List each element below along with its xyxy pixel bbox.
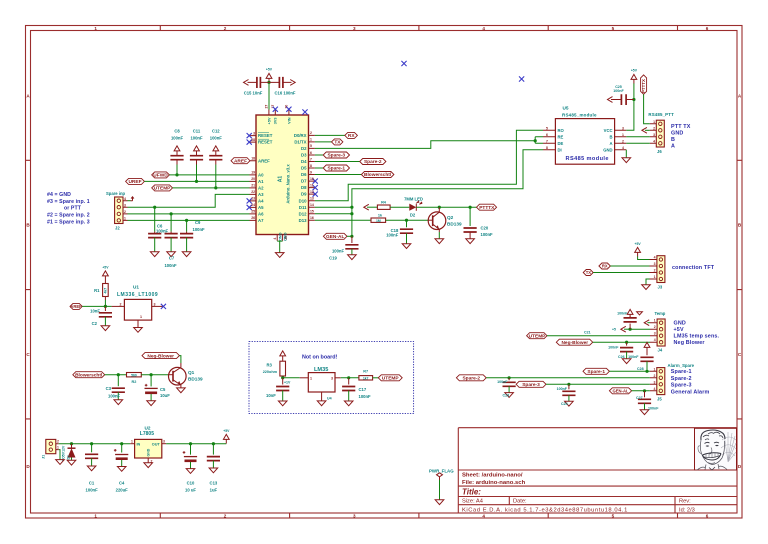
wire xyxy=(568,395,570,401)
svg-text:RS485_module: RS485_module xyxy=(562,113,597,118)
wire xyxy=(593,341,650,343)
svg-text:4: 4 xyxy=(654,338,656,342)
svg-text:GEN-AL: GEN-AL xyxy=(612,389,628,394)
wire xyxy=(186,238,188,252)
wire UTEMP to A2 xyxy=(173,187,250,189)
label Spare-3 xyxy=(323,152,349,158)
svg-text:3: 3 xyxy=(654,332,656,336)
pin xyxy=(248,81,270,83)
wire xyxy=(638,256,650,259)
svg-text:100nF: 100nF xyxy=(210,136,223,141)
power +5V xyxy=(644,342,650,351)
svg-text:2: 2 xyxy=(310,131,312,135)
no-connect 3V3 xyxy=(273,107,278,112)
svg-text:Spare-2: Spare-2 xyxy=(671,376,692,382)
svg-text:7: 7 xyxy=(546,139,548,143)
svg-text:A6: A6 xyxy=(258,212,264,217)
svg-text:+5V: +5V xyxy=(635,242,642,246)
svg-text:AREF: AREF xyxy=(70,304,82,309)
svg-text:2: 2 xyxy=(654,374,656,378)
svg-text:27: 27 xyxy=(265,105,269,109)
no-connect marks xyxy=(401,61,406,66)
connector J5 body xyxy=(657,368,665,395)
svg-text:+5V: +5V xyxy=(674,327,684,333)
ground xyxy=(114,400,123,405)
svg-text:3: 3 xyxy=(353,514,356,519)
svg-text:TX: TX xyxy=(334,140,341,146)
wire A to pin4 xyxy=(626,142,650,144)
svg-text:File: arduino-nano.sch: File: arduino-nano.sch xyxy=(462,480,526,486)
junction xyxy=(534,139,537,142)
svg-text:Spare-3: Spare-3 xyxy=(671,383,692,389)
ground xyxy=(56,460,65,465)
logo face sketch in title block xyxy=(695,428,737,470)
wire xyxy=(624,328,630,330)
ground xyxy=(348,255,357,260)
ground xyxy=(622,359,631,364)
bottom GND pins xyxy=(277,235,282,241)
pin xyxy=(469,232,471,239)
svg-text:18: 18 xyxy=(251,157,255,161)
junction xyxy=(120,442,123,445)
wire xyxy=(390,206,409,208)
power +5V above R3 xyxy=(280,351,286,360)
svg-text:Not on board!: Not on board! xyxy=(302,354,338,360)
svg-text:GND: GND xyxy=(671,131,683,137)
frame zone ticks top/bottom xyxy=(160,26,677,31)
svg-text:1: 1 xyxy=(94,26,97,31)
svg-text:UFWD: UFWD xyxy=(153,173,168,179)
svg-text:1: 1 xyxy=(653,120,655,124)
svg-text:U5: U5 xyxy=(563,106,569,111)
ground xyxy=(150,252,159,257)
svg-text:12: 12 xyxy=(310,190,314,194)
wire xyxy=(373,377,379,379)
wire xyxy=(486,377,650,379)
svg-text:10nF: 10nF xyxy=(266,393,276,398)
wire J2 pin1 to A7 xyxy=(128,219,250,221)
wire xyxy=(439,480,441,500)
ground xyxy=(317,401,326,406)
wire PTTTX to J6 pin1 xyxy=(644,94,650,124)
ground xyxy=(435,239,444,244)
svg-text:connection TFT: connection TFT xyxy=(672,265,715,271)
svg-text:19: 19 xyxy=(251,171,255,175)
svg-text:Neg-Blower: Neg-Blower xyxy=(147,353,174,359)
wire gnd bridge under mcu xyxy=(277,241,282,253)
svg-text:4: 4 xyxy=(654,256,656,260)
pin xyxy=(269,81,292,83)
svg-text:2: 2 xyxy=(224,26,227,31)
svg-text:C17: C17 xyxy=(359,387,367,392)
wire J2 pin3 to A3 riser xyxy=(128,194,250,207)
nose xyxy=(710,448,712,455)
wire open end xyxy=(290,80,295,86)
ground xyxy=(67,460,76,465)
svg-text:VIN: VIN xyxy=(287,117,291,124)
wire +5V down to VCC xyxy=(626,83,634,130)
wire xyxy=(386,219,428,221)
pin4 wire to Neg-Blower xyxy=(556,339,592,345)
pin +5V top xyxy=(268,110,270,116)
wire xyxy=(170,238,172,252)
left pin xyxy=(112,305,125,307)
svg-text:R1: R1 xyxy=(94,288,100,293)
ground xyxy=(622,158,631,163)
svg-text:C20: C20 xyxy=(481,225,489,230)
svg-text:4: 4 xyxy=(653,139,655,143)
wire xyxy=(626,352,628,359)
resistor R6 1M xyxy=(371,218,386,222)
svg-text:Spare-2: Spare-2 xyxy=(462,376,480,382)
svg-text:BD139: BD139 xyxy=(447,222,462,227)
svg-text:Q1: Q1 xyxy=(188,370,195,375)
ground xyxy=(565,401,574,406)
wire UFWD to A0 xyxy=(169,174,249,176)
svg-text:C24: C24 xyxy=(561,402,568,406)
svg-text:25: 25 xyxy=(251,210,255,214)
svg-text:A2: A2 xyxy=(258,186,264,191)
resistor R1 xyxy=(104,280,106,284)
pin xyxy=(154,232,156,234)
svg-text:AREF: AREF xyxy=(234,158,247,164)
svg-text:20: 20 xyxy=(251,177,255,181)
power +5V xyxy=(627,309,633,318)
svg-text:UTEMP: UTEMP xyxy=(382,376,400,382)
pin3: Spare-3 + C24 xyxy=(516,381,546,387)
resistor R4 xyxy=(377,205,390,209)
ground xyxy=(640,410,649,415)
connector J2 body xyxy=(115,197,123,224)
svg-text:J6: J6 xyxy=(657,149,662,154)
svg-text:GND: GND xyxy=(283,233,287,242)
svg-text:3: 3 xyxy=(654,380,656,384)
pin xyxy=(629,316,631,318)
svg-text:3: 3 xyxy=(653,133,655,137)
svg-text:1: 1 xyxy=(94,514,97,519)
capacitor C4 polarized xyxy=(121,444,123,453)
wire xyxy=(121,460,123,467)
capacitor C10 polarized xyxy=(190,444,192,455)
svg-text:C16 100nF: C16 100nF xyxy=(275,91,296,96)
left pins stubs xyxy=(250,136,257,221)
pin xyxy=(147,458,149,463)
svg-text:+5V: +5V xyxy=(267,117,271,124)
junction xyxy=(350,235,353,238)
svg-text:100nF: 100nF xyxy=(193,227,206,232)
pin xyxy=(130,443,134,445)
wire D11/D12 riser to DI xyxy=(315,150,543,237)
label UREF xyxy=(126,178,145,184)
svg-text:or PTT: or PTT xyxy=(64,206,82,212)
wire R2 to Q1 xyxy=(141,374,168,376)
junction xyxy=(212,442,215,445)
svg-text:100nF: 100nF xyxy=(171,136,184,141)
pin xyxy=(415,204,417,211)
svg-text:Spare-3: Spare-3 xyxy=(522,382,540,388)
ground xyxy=(144,463,153,468)
wire J2 pin2 to A6 xyxy=(128,213,250,215)
pin3 wire to UTEMP xyxy=(527,333,547,339)
resistor R7 xyxy=(359,376,373,380)
wire D13 to 1M xyxy=(315,219,371,221)
label PTTTX xyxy=(477,204,497,210)
wire to R2 xyxy=(105,374,127,376)
svg-text:D1: D1 xyxy=(67,455,71,460)
svg-text:#4 = GND: #4 = GND xyxy=(47,192,71,198)
svg-text:PTTTX: PTTTX xyxy=(641,79,646,93)
svg-text:C19: C19 xyxy=(329,255,337,260)
wire xyxy=(593,272,649,274)
wire LM35 out xyxy=(341,377,359,379)
wire D2 to RE/DE xyxy=(315,137,543,149)
wire xyxy=(154,238,156,252)
svg-text:Neg Blower: Neg Blower xyxy=(674,340,706,346)
wire UREF to A1 xyxy=(144,180,249,182)
pin xyxy=(644,391,646,398)
svg-text:A: A xyxy=(671,144,675,150)
svg-text:PTTTX: PTTTX xyxy=(479,205,495,211)
right pin stubs VCC B A GND xyxy=(615,130,627,150)
palm fan right xyxy=(721,432,736,462)
wire D6 to Blowerschtl xyxy=(315,174,362,176)
hair xyxy=(701,430,725,440)
ground xyxy=(186,469,195,474)
wire xyxy=(367,206,377,208)
title block xyxy=(458,428,737,514)
svg-text:1: 1 xyxy=(57,445,59,449)
svg-text:100nF: 100nF xyxy=(386,232,399,237)
neck and collar xyxy=(705,464,719,470)
capacitor C1 xyxy=(91,444,93,453)
pin xyxy=(173,363,181,388)
label UTEMP xyxy=(378,375,402,381)
junction xyxy=(104,305,107,308)
resistor R3 xyxy=(282,360,284,361)
svg-text:21: 21 xyxy=(251,184,255,188)
no-connect A4 A5 xyxy=(247,198,252,203)
pin xyxy=(611,99,634,101)
no-connect D7 D8 D9 xyxy=(313,179,318,184)
pin xyxy=(56,444,59,450)
svg-text:OUT: OUT xyxy=(152,443,161,447)
connector J6 body xyxy=(656,120,664,147)
diode D1 xyxy=(71,444,73,449)
wire xyxy=(190,462,192,469)
pin xyxy=(170,232,172,234)
notes xyxy=(674,321,720,347)
wire B to pin3 xyxy=(626,136,650,138)
wire xyxy=(644,403,646,410)
ground xyxy=(278,401,287,406)
pin xyxy=(215,155,217,165)
dangling wire start xyxy=(364,204,369,210)
svg-text:6: 6 xyxy=(706,26,709,31)
svg-text:1: 1 xyxy=(654,367,656,371)
wire J1 pin1 to gnd xyxy=(59,450,60,460)
svg-text:5: 5 xyxy=(612,26,615,31)
wire xyxy=(104,317,106,326)
svg-text:+5V: +5V xyxy=(223,429,230,433)
svg-text:10 uF: 10 uF xyxy=(185,488,196,493)
svg-text:3: 3 xyxy=(154,302,156,306)
junction xyxy=(508,376,511,379)
label AREF xyxy=(70,303,82,309)
svg-text:Sheet: /arduino-nano/: Sheet: /arduino-nano/ xyxy=(462,473,523,479)
pin1: Spare-1 + C28 to +5V xyxy=(583,368,609,374)
svg-text:UTEMP: UTEMP xyxy=(529,333,547,339)
svg-text:3: 3 xyxy=(622,126,624,130)
wire xyxy=(351,249,353,255)
svg-text:C12: C12 xyxy=(212,129,220,134)
svg-text:VCC: VCC xyxy=(604,128,613,133)
no-connect VIN xyxy=(286,107,291,112)
pin xyxy=(650,124,657,144)
svg-text:+1V: +1V xyxy=(284,381,291,385)
svg-text:Id: 2/3: Id: 2/3 xyxy=(679,507,695,513)
junction xyxy=(350,206,353,209)
svg-text:C10: C10 xyxy=(187,481,195,486)
pin 3V3 top xyxy=(274,110,276,116)
svg-text:C4: C4 xyxy=(119,481,125,486)
junction xyxy=(405,219,408,222)
capacitor C3 xyxy=(117,375,119,387)
ground under mcu xyxy=(275,253,284,258)
svg-text:C23: C23 xyxy=(503,394,510,398)
svg-text:RESET: RESET xyxy=(258,140,273,145)
ground xyxy=(177,388,186,393)
pin xyxy=(568,384,570,389)
dangling arrow pin1 xyxy=(644,320,649,326)
capacitor C18 xyxy=(406,220,408,227)
junction xyxy=(90,442,93,445)
label Spare-1 xyxy=(323,165,349,171)
svg-text:23: 23 xyxy=(251,197,255,201)
svg-text:D7: D7 xyxy=(301,179,307,184)
pin xyxy=(183,451,186,454)
svg-text:8: 8 xyxy=(546,146,548,150)
svg-text:D2: D2 xyxy=(301,146,307,151)
svg-text:KiCad E.D.A. kicad 5.1.7-e3&2: KiCad E.D.A. kicad 5.1.7-e3&2d34e887ubun… xyxy=(462,507,628,513)
svg-text:4: 4 xyxy=(482,514,485,519)
label Spare-2 xyxy=(360,159,386,165)
PWR_FLAG xyxy=(429,469,454,505)
wire R3 to LM35 xyxy=(283,377,300,379)
wire xyxy=(610,265,649,267)
dangling arrow at pin2 xyxy=(642,127,647,133)
svg-text:C7: C7 xyxy=(169,256,175,261)
wire xyxy=(170,214,172,232)
ground xyxy=(87,466,96,471)
junction xyxy=(567,383,570,386)
svg-text:J3: J3 xyxy=(658,284,663,289)
svg-text:GND: GND xyxy=(603,147,612,152)
wire xyxy=(646,361,648,371)
svg-text:100nF: 100nF xyxy=(359,394,372,399)
svg-text:100nF: 100nF xyxy=(557,387,568,391)
wire xyxy=(71,458,73,461)
svg-text:A4: A4 xyxy=(258,199,264,204)
ground xyxy=(182,252,191,257)
svg-text:GND: GND xyxy=(278,233,282,242)
svg-text:J1: J1 xyxy=(42,455,46,459)
svg-text:C26: C26 xyxy=(618,355,625,359)
capacitor C21 xyxy=(629,324,631,330)
svg-text:C2: C2 xyxy=(92,321,98,326)
svg-text:C13: C13 xyxy=(210,481,218,486)
svg-text:GEN-AL: GEN-AL xyxy=(326,234,344,240)
ground xyxy=(117,467,126,472)
svg-text:BD139: BD139 xyxy=(188,376,203,381)
svg-text:6: 6 xyxy=(706,514,709,519)
ground xyxy=(134,328,143,333)
power +5V above mcu xyxy=(266,73,272,82)
svg-text:C3: C3 xyxy=(106,386,112,391)
notes xyxy=(671,369,710,395)
capacitor C11 xyxy=(194,146,200,155)
label Blowerschtl xyxy=(361,172,394,178)
wire xyxy=(632,390,650,392)
svg-text:28: 28 xyxy=(251,138,255,142)
pin xyxy=(114,449,117,452)
capacitor C19 xyxy=(351,236,353,243)
svg-text:IN: IN xyxy=(137,443,141,447)
main rail xyxy=(59,443,131,445)
svg-text:5: 5 xyxy=(310,144,312,148)
svg-text:LM35: LM35 xyxy=(314,367,328,373)
right pin with no-connect xyxy=(152,305,163,307)
capacitor C20 xyxy=(469,207,471,226)
junction xyxy=(214,186,217,189)
capacitor C25 xyxy=(621,94,626,105)
svg-text:2: 2 xyxy=(224,514,227,519)
svg-text:1: 1 xyxy=(310,138,312,142)
label TX xyxy=(332,139,343,145)
wire xyxy=(154,207,156,231)
label PTTTX vertical xyxy=(641,75,647,94)
junction xyxy=(70,442,73,445)
left pin stubs RO RE DE DI xyxy=(543,130,555,150)
capacitor C2 xyxy=(104,306,106,311)
svg-text:C21: C21 xyxy=(584,331,591,335)
svg-text:5: 5 xyxy=(546,126,548,130)
svg-text:RO: RO xyxy=(558,128,565,133)
ground xyxy=(435,500,444,505)
svg-text:+5V: +5V xyxy=(631,69,638,73)
svg-text:GND: GND xyxy=(147,448,151,456)
svg-text:+5V: +5V xyxy=(102,266,109,270)
wire AREF to U1 xyxy=(82,305,111,307)
pin xyxy=(650,371,657,391)
svg-text:C11: C11 xyxy=(193,129,201,134)
svg-text:16: 16 xyxy=(310,216,314,220)
svg-text:Title:: Title: xyxy=(462,487,481,496)
svg-text:D10: D10 xyxy=(299,198,307,203)
svg-text:220ohm: 220ohm xyxy=(263,370,278,374)
junction top xyxy=(267,81,270,84)
wire xyxy=(176,165,178,175)
svg-text:C15 10nF: C15 10nF xyxy=(244,91,263,96)
svg-text:1: 1 xyxy=(131,439,133,443)
junction xyxy=(350,212,353,215)
svg-text:D12: D12 xyxy=(299,211,307,216)
svg-text:Blowerschtl: Blowerschtl xyxy=(75,372,102,378)
svg-text:Rev:: Rev: xyxy=(679,499,691,505)
svg-text:3: 3 xyxy=(163,439,165,443)
power +5V above VCC xyxy=(631,74,637,83)
svg-text:A1: A1 xyxy=(278,176,284,183)
svg-text:100nF: 100nF xyxy=(628,355,639,359)
